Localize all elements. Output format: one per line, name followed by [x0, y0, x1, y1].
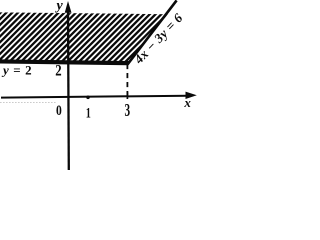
svg-text:y: y: [55, 0, 64, 13]
line y = 2 (thick horizontal boundary): [0, 61, 129, 63]
shaded region (y >= 2 and 4x - 3y <= 6): [0, 12, 168, 63]
svg-text:y = 2: y = 2: [1, 63, 32, 78]
y-axis: [67, 9, 70, 170]
dot at x = 1 on the x-axis: [86, 96, 90, 100]
svg-text:3: 3: [125, 102, 131, 121]
faint scan line under x-axis: [0, 101, 56, 103]
y-axis arrowhead: [65, 1, 72, 13]
svg-text:1: 1: [86, 105, 91, 121]
x-axis arrowhead: [186, 92, 197, 99]
tick at x = 3 crossing the x-axis: [126, 92, 128, 99]
svg-text:2: 2: [55, 62, 61, 80]
svg-text:0: 0: [56, 102, 62, 119]
x-axis: [1, 96, 188, 98]
svg-text:x: x: [183, 95, 191, 110]
line 4x - 3y = 6 (diagonal boundary): [128, 0, 177, 64]
dashed line x = 3 from (3,2) down to x-axis: [126, 64, 128, 97]
